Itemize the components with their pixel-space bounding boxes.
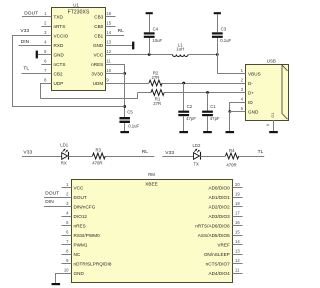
wire UDP jog up (137, 93, 139, 99)
wire R1 to USB D+ (164, 92, 245, 94)
svg-text:NC: NC (74, 252, 81, 257)
RM pin 14 (VREF) (217, 239, 242, 248)
RM pin 9 (nDTR/SLPRQ/DI8) (62, 258, 112, 267)
svg-text:VCC: VCC (93, 53, 103, 58)
net label DIN at U1 RXD (21, 39, 30, 45)
svg-text:LD1: LD1 (60, 142, 68, 147)
svg-text:V33: V33 (165, 150, 174, 156)
U1 part name FT230XS (68, 10, 90, 16)
C3 label (221, 26, 227, 31)
wire V33 to U1 pin 3 (12, 35, 51, 37)
RM pin 19 (AD1/DIO1) (208, 192, 242, 201)
U1 pin 14 (CB1) (94, 30, 115, 39)
svg-text:10: 10 (64, 268, 69, 273)
svg-text:17: 17 (235, 211, 240, 216)
ground below USB GND (226, 131, 235, 133)
net label TL at U1 CB2 (23, 65, 29, 71)
RM pin 15 (ASS/AD5/DIO5) (198, 230, 243, 239)
USB pin 4 (ID) (236, 97, 254, 106)
svg-text:RX: RX (61, 161, 67, 166)
U1 pin 4 (RXD) (41, 40, 64, 49)
junction on D- line (182, 82, 185, 85)
wire U1 pin 11 corner (106, 64, 125, 74)
wire C3 stem lower (217, 38, 219, 55)
USB label (267, 58, 276, 63)
svg-text:DIN: DIN (45, 199, 54, 205)
svg-text:10: 10 (106, 68, 111, 73)
wire C4 stem lower (149, 38, 151, 55)
wire LD1 to R3 (68, 156, 92, 158)
svg-text:ASS/AD5/DIO5: ASS/AD5/DIO5 (198, 233, 230, 238)
svg-text:14: 14 (235, 239, 240, 244)
svg-text:DOUT: DOUT (74, 195, 87, 200)
svg-text:27R: 27R (153, 101, 161, 106)
USB pin 2 (D-) (236, 78, 254, 87)
RM pin 7 (PWM1) (62, 239, 88, 248)
svg-text:RXD: RXD (54, 43, 64, 48)
svg-text:USB: USB (267, 58, 276, 63)
junction V33 feed (123, 105, 126, 108)
wire RM GND down (56, 273, 72, 283)
svg-text:VCCIO: VCCIO (54, 34, 69, 39)
LED LD1 (62, 149, 69, 160)
svg-text:V33: V33 (23, 149, 32, 155)
svg-text:CB2: CB2 (54, 72, 63, 77)
junction ID-GND (228, 110, 231, 113)
svg-text:DIO12: DIO12 (74, 214, 88, 219)
svg-text:16: 16 (235, 220, 240, 225)
svg-text:nRTS: nRTS (54, 24, 66, 29)
svg-text:GND: GND (248, 110, 259, 115)
svg-text:UDP: UDP (54, 81, 64, 86)
net label TL (TX LED row) (258, 149, 264, 155)
wire V33 to LD1 (22, 156, 62, 158)
wire C4 stem upper (149, 14, 151, 32)
U1 pin 11 (nRES) (91, 59, 115, 68)
wire UDP from pin 8 down (41, 83, 52, 99)
svg-text:VBUS: VBUS (248, 72, 261, 77)
net label RL (RX LED row) (142, 149, 149, 155)
R2 value 27R (151, 75, 159, 80)
svg-text:V33: V33 (20, 28, 29, 34)
svg-text:12: 12 (106, 49, 111, 54)
RM pin 11 (AD4/DIO4) (208, 268, 242, 277)
svg-text:G1: G1 (270, 112, 275, 118)
RM pin 18 (AD2/DIO2) (208, 201, 242, 210)
USB pin 3 (D+) (236, 87, 255, 96)
wire UDM to R2 (106, 83, 150, 85)
svg-text:27R: 27R (151, 75, 159, 80)
wire DIN to RM pin 3 (44, 206, 72, 208)
svg-text:AD0/DIO0: AD0/DIO0 (208, 186, 230, 191)
svg-text:TL: TL (23, 65, 29, 71)
capacitor C1 (202, 111, 213, 117)
R4 value 470R (226, 163, 236, 168)
wire UDP to R1 (138, 92, 151, 94)
LD1 function RX (61, 161, 67, 166)
RM pin 16 (nRTS/AD6/DIO6) (195, 220, 242, 229)
wire L1 to C3 junction (188, 54, 217, 56)
L1 value 1uH (176, 47, 184, 52)
svg-text:470R: 470R (226, 163, 236, 168)
svg-text:nDTR/SLPRQ/DI8: nDTR/SLPRQ/DI8 (74, 262, 112, 267)
resistor R4 (226, 153, 239, 159)
wire LD2 to R4 (200, 156, 225, 158)
wire USB GND (230, 112, 236, 132)
wire VBUS corner (217, 55, 245, 74)
svg-text:15: 15 (235, 230, 240, 235)
svg-text:AD4/DIO4: AD4/DIO4 (208, 271, 230, 276)
svg-text:nCTS: nCTS (54, 62, 66, 67)
U1 pin 6 (nCTS) (41, 59, 65, 68)
svg-text:AD1/DIO1: AD1/DIO1 (208, 195, 230, 200)
wire R2 to USB D- (162, 83, 245, 85)
svg-text:nCTS/DIO7: nCTS/DIO7 (206, 262, 231, 267)
C2 label (187, 104, 193, 109)
svg-text:GND: GND (93, 43, 104, 48)
svg-text:DOUT: DOUT (45, 190, 59, 196)
LD1 label (60, 142, 68, 147)
svg-text:R4: R4 (229, 148, 235, 153)
svg-text:15: 15 (106, 21, 111, 26)
svg-text:ID: ID (248, 100, 253, 105)
U1 pin 12 (VCC) (93, 49, 115, 58)
USB shield pin G1 label (270, 112, 275, 118)
svg-text:1uH: 1uH (176, 47, 184, 52)
svg-text:18: 18 (235, 201, 240, 206)
junction at pin 10 (123, 72, 126, 75)
wire VCC from U1 pin 12 (106, 54, 173, 56)
RM pin 6 (RSSI/PWM0) (62, 230, 101, 239)
wire USB shield (273, 120, 275, 131)
wire UDP under U1 (41, 98, 138, 100)
ground below RM pin 10 (52, 283, 61, 285)
RM pin 3 (DIN/nCFG) (62, 201, 96, 210)
svg-text:470R: 470R (92, 161, 102, 166)
svg-text:0.1uF: 0.1uF (128, 123, 139, 128)
C2 value 47pF (186, 116, 196, 121)
svg-text:D+: D+ (248, 91, 254, 96)
U1 pin 9 (UDM) (93, 78, 116, 87)
svg-text:6: 6 (266, 124, 270, 126)
svg-text:RL: RL (142, 149, 149, 155)
svg-text:RL: RL (118, 28, 125, 34)
RM pin 12 (nCTS/DIO7) (206, 258, 243, 267)
RM pin 1 (VCC) (62, 182, 84, 191)
wire C5 stem lower (124, 123, 126, 131)
svg-text:16: 16 (106, 11, 111, 16)
U1 pin 3 (VCCIO) (41, 30, 68, 39)
C1 label (210, 104, 216, 109)
svg-text:TXD: TXD (54, 15, 64, 20)
RM pin 17 (AD3/DIO3) (208, 211, 242, 220)
LED LD2 (194, 149, 201, 160)
RM pin 10 (GND) (62, 268, 85, 277)
wire 3V3 down to C5 (124, 74, 126, 118)
wire R4 to TL (239, 156, 264, 158)
C3 value 0.1uF (220, 38, 231, 43)
net label V33 (TX LED row) (165, 150, 174, 156)
RM pin 8 (NC) (62, 249, 81, 258)
C4 value 10uF (152, 38, 162, 43)
junction on D+ line (206, 91, 209, 94)
RM part name XBEE (145, 182, 157, 187)
U1 pin 13 (GND) (93, 40, 116, 49)
junction at C3 (216, 53, 219, 56)
svg-text:CB3: CB3 (94, 15, 103, 20)
svg-text:D-: D- (248, 81, 253, 86)
ground below C5 (120, 131, 129, 133)
U1 pin 10 (3V3O) (91, 68, 115, 77)
wire C1 stem lower (207, 116, 209, 131)
svg-text:C5: C5 (127, 109, 133, 114)
U1 pin 8 (UDP) (41, 78, 63, 87)
wire DOUT to U1 pin 1 (22, 16, 51, 18)
RM pin 4 (DIO12) (62, 211, 88, 220)
svg-text:R3: R3 (96, 147, 102, 152)
svg-text:0.1uF: 0.1uF (220, 38, 231, 43)
USB pin 5 (GND) (236, 106, 259, 115)
svg-text:GND: GND (74, 271, 85, 276)
svg-text:VREF: VREF (217, 243, 230, 248)
svg-text:VCC: VCC (74, 186, 84, 191)
ground below C1 (203, 131, 212, 133)
wire RL at U1 pin 14 (106, 35, 125, 37)
svg-text:DOUT: DOUT (24, 11, 38, 17)
junction at C4 (148, 53, 151, 56)
svg-text:19: 19 (235, 192, 240, 197)
svg-text:AD3/DIO3: AD3/DIO3 (208, 214, 230, 219)
svg-text:47pF: 47pF (210, 116, 220, 121)
svg-text:C2: C2 (187, 104, 193, 109)
svg-text:RM: RM (148, 172, 155, 177)
net label DIN at RM pin 3 (45, 199, 54, 205)
U1 pin 16 (CB3) (94, 11, 115, 20)
net label V33 (RX LED row) (23, 149, 32, 155)
svg-text:C3: C3 (221, 26, 227, 31)
U1 pin 7 (CB2) (41, 68, 63, 77)
ground below C2 (179, 131, 188, 133)
svg-text:11: 11 (235, 268, 240, 273)
wire DIN to U1 pin 4 (19, 45, 52, 47)
LD2 label (193, 143, 201, 148)
U1 reference designator (73, 2, 79, 7)
wire R3 to RL (105, 156, 154, 158)
svg-text:TL: TL (258, 149, 264, 155)
svg-text:AD2/DIO2: AD2/DIO2 (208, 205, 230, 210)
svg-text:20: 20 (235, 182, 240, 187)
svg-text:RSSI/PWM0: RSSI/PWM0 (74, 233, 101, 238)
USB connector inner outline (282, 65, 288, 119)
svg-text:GND: GND (54, 53, 65, 58)
U1 pin 5 (GND) (41, 49, 64, 58)
RM reference designator (148, 172, 155, 177)
svg-text:47pF: 47pF (186, 116, 196, 121)
wire U1 pin 10 to junction (106, 73, 125, 75)
svg-text:10uF: 10uF (152, 38, 162, 43)
svg-text:CB0: CB0 (94, 24, 103, 29)
svg-text:UDM: UDM (93, 81, 104, 86)
svg-text:XBEE: XBEE (145, 182, 157, 187)
module RM body (72, 180, 233, 283)
wire C2 stem upper (183, 83, 185, 111)
RM pin 13 (ON/nSLEEP) (204, 249, 243, 258)
svg-text:14: 14 (106, 30, 111, 35)
svg-text:3V3O: 3V3O (91, 72, 103, 77)
svg-text:U1: U1 (73, 2, 79, 7)
R3 value 470R (92, 161, 102, 166)
wire C2 stem lower (183, 116, 185, 131)
svg-text:nRES: nRES (91, 62, 103, 67)
svg-text:13: 13 (235, 249, 240, 254)
ground above C3 (214, 12, 221, 14)
C4 label (153, 26, 159, 31)
C5 label (127, 109, 133, 114)
net label DOUT at U1 TXD (24, 11, 38, 17)
svg-text:ON/nSLEEP: ON/nSLEEP (204, 252, 230, 257)
R1 value 27R (153, 101, 161, 106)
svg-text:DIN: DIN (21, 39, 30, 45)
wire C1 stem upper (207, 93, 209, 111)
RM pin 20 (AD0/DIO0) (208, 182, 242, 191)
wire TL to U1 pin 7 (22, 73, 52, 75)
net label RL at U1 CB1 (118, 28, 125, 34)
wire U1 pin 13 to ground (106, 45, 133, 47)
capacitor C2 (178, 111, 189, 117)
USB connector body (246, 65, 289, 121)
capacitor C4 (144, 32, 155, 38)
USB pin 1 (VBUS) (236, 68, 261, 77)
svg-text:13: 13 (106, 40, 111, 45)
U1 pin 1 (TXD) (41, 11, 63, 20)
C5 value 0.1uF (128, 123, 139, 128)
inductor L1 (173, 55, 189, 57)
RM pin 2 (DOUT) (62, 192, 87, 201)
wire C3 stem upper (217, 14, 219, 32)
svg-text:nRTS/AD6/DIO6: nRTS/AD6/DIO6 (195, 224, 230, 229)
wire USB ID down (230, 102, 236, 112)
svg-text:PWM1: PWM1 (74, 243, 88, 248)
svg-text:TX: TX (193, 162, 199, 167)
USB shield pin number 6 (266, 124, 270, 126)
net label V33 at U1 VCCIO (20, 28, 29, 34)
svg-text:DIN/nCFG: DIN/nCFG (74, 205, 96, 210)
R1 label (155, 96, 161, 101)
svg-text:CB1: CB1 (94, 34, 103, 39)
svg-text:11: 11 (106, 59, 111, 64)
ground at U1 pin 5 (36, 51, 52, 59)
svg-text:FT230XS: FT230XS (68, 10, 90, 16)
capacitor C5 (119, 117, 130, 123)
capacitor C3 (212, 32, 223, 38)
svg-text:C1: C1 (210, 104, 216, 109)
LD2 function TX (193, 162, 199, 167)
svg-text:12: 12 (235, 258, 240, 263)
L1 label (178, 42, 183, 47)
wire V33 to LD2 (162, 156, 193, 158)
R4 label (229, 148, 235, 153)
svg-text:C4: C4 (153, 26, 159, 31)
wire V33 left rail (12, 36, 125, 107)
ground at U1 pin 13 (132, 42, 134, 50)
net label DOUT at RM pin 2 (45, 190, 59, 196)
svg-text:LD2: LD2 (193, 143, 201, 148)
wire DOUT to RM pin 2 (44, 197, 72, 199)
U1 pin 2 (nRTS) (41, 21, 65, 30)
C1 value 47pF (210, 116, 220, 121)
R3 label (96, 147, 102, 152)
ground above C4 (146, 12, 153, 14)
resistor R1 (151, 90, 164, 96)
RM pin 5 (nRES) (62, 220, 86, 229)
ground below USB shield (269, 131, 278, 133)
R2 label (153, 70, 159, 75)
U1 pin 15 (CB0) (94, 21, 115, 30)
IC U1 body (52, 8, 106, 91)
svg-text:nRES: nRES (74, 224, 86, 229)
resistor R3 (93, 153, 106, 159)
resistor R2 (149, 80, 162, 86)
